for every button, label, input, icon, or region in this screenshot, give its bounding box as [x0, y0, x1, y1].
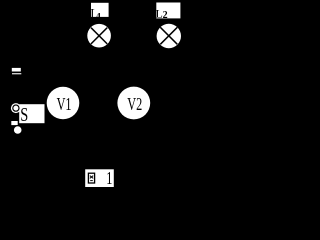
label box L2 — [156, 3, 180, 19]
svg-text:1: 1 — [97, 12, 102, 23]
switch S label box — [19, 104, 44, 123]
lamp L1 — [87, 24, 111, 48]
svg-text:V1: V1 — [57, 95, 72, 115]
voltmeter V2 — [117, 87, 150, 120]
label box L1 — [91, 3, 109, 17]
label L1 — [90, 5, 101, 23]
caption text 1 — [106, 169, 112, 189]
lamp L2 — [157, 24, 181, 48]
svg-text:S: S — [20, 103, 28, 126]
caption box 图1 — [85, 169, 114, 187]
switch label S — [20, 103, 28, 126]
switch S terminal (top) — [11, 103, 21, 113]
svg-text:V2: V2 — [127, 95, 142, 115]
svg-text:2: 2 — [163, 10, 168, 21]
svg-text:1: 1 — [106, 169, 112, 189]
switch S terminal (bottom) — [11, 121, 22, 134]
voltmeter V1 — [47, 87, 80, 120]
caption glyph 图 — [88, 173, 94, 183]
battery — [12, 68, 21, 74]
label L2 — [156, 6, 168, 21]
